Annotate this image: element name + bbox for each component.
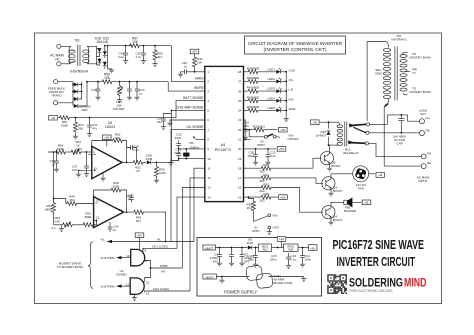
svg-text:5: 5 bbox=[207, 109, 209, 113]
resistor R38 to +5V bbox=[249, 196, 261, 198]
svg-text:BATT-SENSE: BATT-SENSE bbox=[183, 96, 204, 100]
svg-text:22: 22 bbox=[238, 128, 242, 132]
svg-text:0.01u: 0.01u bbox=[72, 168, 80, 172]
plus input ground bbox=[79, 170, 83, 173]
plus input bbox=[82, 169, 96, 171]
svg-text:O/L SENSE: O/L SENSE bbox=[186, 125, 204, 129]
terminal feedback top bbox=[54, 80, 58, 84]
+5V box above gate1 bbox=[135, 233, 144, 238]
resistor R49 2K2 wire bbox=[54, 199, 66, 204]
row pin24 WAR bbox=[244, 109, 248, 111]
gate2 bottom pin to CH2 row bbox=[142, 290, 144, 292]
svg-text:L.B: L.B bbox=[289, 88, 294, 92]
svg-text:BC547: BC547 bbox=[333, 218, 343, 222]
svg-text:+5V: +5V bbox=[137, 233, 142, 237]
+B supply box bbox=[49, 115, 58, 120]
svg-text:+B: +B bbox=[378, 173, 382, 177]
HL row wire bbox=[112, 241, 194, 243]
svg-text:DIP RET: DIP RET bbox=[113, 107, 125, 111]
svg-text:MIND: MIND bbox=[404, 275, 427, 289]
svg-text:19: 19 bbox=[238, 157, 242, 161]
contact circles bbox=[366, 123, 369, 126]
svg-text:30A-RELAY: 30A-RELAY bbox=[343, 151, 359, 155]
crystal ground bbox=[168, 162, 173, 166]
+5V output box bbox=[309, 245, 318, 251]
left rail wire bbox=[48, 152, 54, 203]
svg-text:8: 8 bbox=[207, 138, 209, 142]
svg-text:HL: HL bbox=[157, 238, 161, 242]
resistor R54 220E bbox=[55, 150, 67, 154]
svg-text:FREE ELECTRONIC CIRCUITS: FREE ELECTRONIC CIRCUITS bbox=[350, 289, 394, 293]
svg-text:28: 28 bbox=[238, 70, 242, 74]
row pin25 INV bbox=[244, 100, 248, 102]
svg-text:CAP: CAP bbox=[396, 142, 402, 146]
svg-text:R30(2K2: R30(2K2 bbox=[253, 125, 265, 129]
svg-text:TRAFO: TRAFO bbox=[51, 94, 62, 98]
svg-text:10: 10 bbox=[126, 254, 130, 258]
relay core bbox=[345, 122, 347, 147]
svg-text:+B: +B bbox=[365, 201, 369, 205]
svg-text:I/P: I/P bbox=[55, 58, 60, 62]
svg-text:CH1 LOGIC: CH1 LOGIC bbox=[152, 244, 169, 248]
primary taps bbox=[404, 93, 408, 95]
svg-text:7V: 7V bbox=[412, 71, 416, 75]
gate2 input top wire to PWM node bbox=[143, 268, 151, 281]
svg-text:T61: T61 bbox=[74, 39, 80, 43]
fuse F1 blade bbox=[247, 276, 272, 278]
svg-text:MOSFET BANK: MOSFET BANK bbox=[410, 56, 431, 60]
relay arm 1 bbox=[350, 124, 367, 125]
svg-text:R41680E: R41680E bbox=[247, 86, 260, 90]
svg-text:9: 9 bbox=[94, 151, 96, 155]
capacitor C26 op2 bbox=[109, 222, 111, 224]
UPS ground stub bbox=[268, 229, 270, 231]
pin20 +5V bbox=[244, 148, 277, 150]
resistor R53 4K7 bbox=[133, 210, 145, 214]
svg-text:100K: 100K bbox=[159, 171, 166, 175]
svg-text:CH2 LOGIC: CH2 LOGIC bbox=[153, 287, 170, 291]
crystal XTL 16MHz bbox=[184, 153, 190, 156]
resistor R35 pin16 to Q4 bbox=[244, 187, 261, 189]
svg-text:INVTRAFO: INVTRAFO bbox=[391, 38, 407, 42]
svg-text:2: 2 bbox=[207, 80, 209, 84]
svg-text:6: 6 bbox=[207, 118, 209, 122]
svg-text:100u: 100u bbox=[270, 258, 277, 262]
+B supply box bbox=[311, 120, 320, 125]
svg-text:4007: 4007 bbox=[247, 241, 254, 245]
svg-text:26: 26 bbox=[238, 89, 242, 93]
pin7 OL sense wire bbox=[171, 130, 205, 242]
wire pin13 to PWM row bbox=[183, 188, 205, 269]
secondary top wire bbox=[367, 42, 389, 122]
gate2 output wire bbox=[122, 285, 131, 287]
svg-text:10K: 10K bbox=[104, 76, 111, 80]
resistor R34 pin17 to Q3 bbox=[244, 177, 261, 179]
output wire bbox=[126, 211, 128, 213]
pin8 stub with arrow bbox=[193, 137, 204, 140]
transformer T61 primary winding bbox=[69, 46, 71, 64]
svg-text:27: 27 bbox=[238, 80, 242, 84]
bridge ground bbox=[108, 68, 112, 70]
resistor R33 pin18 to Q5 bbox=[244, 167, 261, 169]
svg-text:INVFB: INVFB bbox=[194, 86, 205, 90]
svg-text:PWM: PWM bbox=[160, 264, 168, 268]
svg-text:TO MOSFET BANK: TO MOSFET BANK bbox=[57, 265, 83, 269]
PWM row wire bbox=[144, 261, 183, 269]
svg-text:1N4148: 1N4148 bbox=[96, 40, 108, 44]
VR2 ground bbox=[59, 228, 64, 232]
svg-text:4K7: 4K7 bbox=[136, 219, 142, 223]
buzzer PB1 bbox=[344, 200, 347, 204]
svg-text:2K2: 2K2 bbox=[259, 199, 265, 203]
svg-text:20: 20 bbox=[238, 147, 242, 151]
capacitor C37 bbox=[86, 151, 88, 153]
capacitor C31 33pF bbox=[179, 158, 205, 160]
svg-text:14: 14 bbox=[207, 195, 211, 199]
svg-text:100u: 100u bbox=[247, 154, 254, 158]
resistor R63 680E bbox=[52, 202, 56, 214]
svg-text:2K2: 2K2 bbox=[69, 198, 75, 202]
CH1 LOGIC row wire bbox=[143, 248, 177, 250]
capacitor C19b bbox=[288, 253, 290, 254]
svg-text:AA: AA bbox=[161, 270, 165, 274]
svg-text:CH1 PWM: CH1 PWM bbox=[100, 256, 115, 260]
svg-text:LED3: LED3 bbox=[267, 87, 275, 91]
resistor R30 pin22 bbox=[244, 129, 254, 131]
load NE wire from relay contact 2 bbox=[369, 132, 420, 134]
CH2 PWM arrow bbox=[116, 285, 122, 288]
svg-text:33pF: 33pF bbox=[174, 151, 181, 155]
QR code bbox=[327, 274, 347, 294]
wire Q3 collector to fan bbox=[331, 173, 353, 175]
svg-text:12: 12 bbox=[146, 281, 150, 285]
svg-text:R40680E: R40680E bbox=[247, 76, 260, 80]
capacitor C20 bbox=[277, 248, 279, 253]
svg-text:INPUT: INPUT bbox=[419, 179, 428, 183]
svg-text:+B: +B bbox=[51, 116, 55, 120]
+batt rail wire bbox=[215, 247, 247, 249]
svg-text:0-6V/500mA: 0-6V/500mA bbox=[70, 70, 89, 74]
svg-text:7812: 7812 bbox=[262, 248, 268, 251]
transformer T61 secondary winding bbox=[87, 46, 89, 64]
wire REG2 out bbox=[298, 247, 309, 249]
-BATT box bbox=[203, 274, 217, 279]
IC U4 PIC16F72 body bbox=[205, 66, 244, 201]
svg-text:+5V: +5V bbox=[280, 195, 285, 199]
svg-text:SPDT: SPDT bbox=[257, 143, 265, 147]
pin15 wire junction bbox=[244, 196, 249, 198]
gate1 input bottom wire bbox=[142, 260, 145, 262]
+BATT box bbox=[203, 245, 216, 250]
AC main NE wire from trafo vertical bbox=[384, 165, 421, 167]
regulator REG2 7805 bbox=[284, 244, 299, 252]
led common cathode rail bbox=[285, 72, 287, 118]
svg-text:PIC16F72 SINE WAVE: PIC16F72 SINE WAVE bbox=[333, 237, 425, 252]
svg-text:17: 17 bbox=[238, 176, 242, 180]
svg-text:LED4: LED4 bbox=[267, 96, 275, 100]
diode D28 4148 bbox=[147, 160, 151, 164]
fan 12V DC bbox=[353, 166, 369, 182]
terminal feedback bottom bbox=[54, 101, 58, 105]
capacitor C21 bbox=[302, 248, 304, 253]
svg-text:12: 12 bbox=[207, 176, 211, 180]
svg-text:10: 10 bbox=[207, 157, 211, 161]
svg-text:7: 7 bbox=[207, 128, 209, 132]
svg-text:21: 21 bbox=[238, 138, 242, 142]
svg-text:24: 24 bbox=[238, 109, 242, 113]
primary winding bbox=[402, 53, 408, 55]
capacitor C4 bbox=[231, 248, 233, 252]
S1 UPS contact bbox=[268, 226, 271, 229]
svg-text:220E: 220E bbox=[57, 147, 64, 151]
resistor R59 bbox=[101, 80, 113, 84]
row pin27 OL bbox=[244, 80, 248, 82]
svg-text:PH: PH bbox=[427, 152, 431, 156]
terminal load PH bbox=[420, 119, 425, 124]
terminal AC NE bbox=[421, 164, 426, 169]
svg-text:11: 11 bbox=[207, 166, 210, 170]
svg-text:INVERTER CIRCUIT: INVERTER CIRCUIT bbox=[337, 254, 416, 269]
power supply box bbox=[197, 238, 322, 297]
wire Q4 collector to buzzer bbox=[331, 201, 344, 203]
resistor R56 680E bbox=[74, 224, 83, 226]
op-amp U5A triangle bbox=[92, 146, 122, 178]
wire bbox=[61, 46, 71, 64]
core bbox=[395, 47, 397, 101]
svg-text:10: 10 bbox=[94, 166, 98, 170]
+5V box above bbox=[103, 135, 112, 140]
svg-text:MOSFET BANK: MOSFET BANK bbox=[410, 90, 431, 94]
resistor R54 33K bbox=[75, 118, 77, 121]
terminal load NE bbox=[420, 131, 425, 136]
svg-text:R35: R35 bbox=[263, 183, 269, 187]
svg-text:U4: U4 bbox=[221, 143, 226, 147]
svg-text:1: 1 bbox=[207, 70, 209, 74]
capacitor C31 bbox=[129, 82, 131, 86]
svg-text:18: 18 bbox=[238, 166, 242, 170]
terminal AC PH bbox=[421, 154, 426, 159]
wire pin14 to CH1 LOGIC row bbox=[177, 197, 205, 248]
svg-text:SOLDERING: SOLDERING bbox=[349, 275, 403, 289]
relay arm 2 bbox=[354, 127, 366, 132]
preset VR3 bbox=[70, 149, 82, 155]
svg-text:14: 14 bbox=[119, 208, 123, 212]
svg-text:+5V: +5V bbox=[279, 147, 284, 151]
svg-text:-BATT: -BATT bbox=[205, 275, 214, 279]
capacitor C32 bbox=[56, 151, 58, 153]
gate2 ground bbox=[134, 294, 136, 296]
wire to pin1 bbox=[195, 71, 205, 73]
buzzer to +B box bbox=[352, 201, 361, 203]
fan to +B box bbox=[369, 173, 376, 175]
transformer T61 core bbox=[78, 45, 80, 66]
wire REG1 to REG2 bbox=[272, 247, 284, 249]
wire to R59 bbox=[87, 81, 101, 83]
svg-text:FAN: FAN bbox=[358, 186, 364, 190]
wire bridge output to filter bbox=[108, 45, 133, 47]
svg-text:BUZZER: BUZZER bbox=[344, 209, 357, 213]
wire to coil bbox=[320, 121, 337, 123]
svg-text:15: 15 bbox=[238, 195, 242, 199]
svg-text:(INVERTER CONTROL CKT): (INVERTER CONTROL CKT) bbox=[264, 47, 327, 53]
output node bbox=[126, 162, 128, 164]
svg-text:POWER SUPPLY: POWER SUPPLY bbox=[224, 290, 257, 295]
wire INVFB to pin 3 bbox=[168, 82, 204, 91]
capacitor C41 bbox=[89, 118, 91, 122]
preset VR2 bbox=[54, 224, 62, 226]
wire MAIN to pin 2 bbox=[171, 46, 204, 82]
svg-text:9: 9 bbox=[145, 259, 147, 263]
relay coil winding bbox=[337, 122, 340, 124]
svg-text:33K: 33K bbox=[78, 127, 83, 131]
svg-text:10K: 10K bbox=[197, 61, 202, 65]
feedback resistor R50 47K bbox=[92, 141, 112, 155]
opamp power gnd bbox=[102, 173, 104, 177]
svg-text:1u: 1u bbox=[184, 65, 188, 69]
svg-text:35V: 35V bbox=[213, 260, 218, 264]
svg-text:3: 3 bbox=[207, 89, 209, 93]
+5V box bbox=[190, 49, 199, 54]
svg-text:BC547: BC547 bbox=[333, 189, 343, 193]
AND gate 2 bbox=[130, 278, 144, 294]
svg-text:230V: 230V bbox=[375, 72, 382, 76]
secondary winding bbox=[383, 48, 390, 51]
svg-text:O/L: O/L bbox=[289, 78, 294, 82]
resistor R45 10K bbox=[194, 54, 196, 56]
svg-text:680E: 680E bbox=[45, 208, 52, 212]
capacitor C19 bbox=[288, 252, 290, 253]
svg-text:1u: 1u bbox=[52, 163, 56, 167]
secondary bottom wire + arrow bbox=[384, 99, 388, 166]
wire pin11 to HL row bbox=[194, 168, 205, 241]
pin6 ground bbox=[170, 120, 205, 122]
S1 INV contact bbox=[268, 214, 271, 217]
capacitor C33 bbox=[136, 82, 138, 86]
resistor R58 bbox=[154, 46, 156, 49]
fan cap 2uF bbox=[398, 115, 404, 133]
svg-text:WAR: WAR bbox=[289, 107, 297, 111]
diode D18 bbox=[328, 122, 330, 129]
svg-text:.01u: .01u bbox=[156, 120, 162, 124]
svg-text:47K: 47K bbox=[115, 136, 120, 140]
svg-text:R39680E: R39680E bbox=[247, 66, 260, 70]
diode D6 bbox=[248, 246, 252, 250]
svg-text:12: 12 bbox=[96, 216, 100, 220]
capacitor C3 4700u bbox=[219, 248, 221, 252]
title box bbox=[245, 36, 346, 54]
capacitor C30 bbox=[97, 82, 99, 86]
feedback capacitor C27 bbox=[127, 195, 132, 197]
pin21 stub bbox=[244, 138, 251, 140]
gate1 input top wire to CH1 row bbox=[142, 248, 144, 252]
feedback resistor R48 330K bbox=[94, 190, 110, 203]
svg-text:LED5: LED5 bbox=[267, 106, 275, 110]
wire bbox=[58, 82, 73, 103]
svg-text:NE: NE bbox=[426, 129, 430, 133]
capacitor C36 bbox=[143, 46, 145, 50]
resistor R52 1K bbox=[132, 160, 144, 164]
svg-text:4K7: 4K7 bbox=[157, 55, 163, 59]
svg-text:10K: 10K bbox=[132, 40, 139, 44]
svg-text:UPS: UPS bbox=[273, 226, 279, 230]
capacitor C34 bbox=[125, 46, 127, 50]
svg-text:33pF: 33pF bbox=[175, 136, 182, 140]
svg-text:1K: 1K bbox=[136, 169, 140, 173]
resistor R55 100K bbox=[156, 162, 158, 165]
fuse right wire and ground bbox=[272, 277, 304, 278]
led rail ground bbox=[284, 117, 289, 121]
svg-text:25: 25 bbox=[238, 99, 242, 103]
svg-text:ON/OFF: ON/OFF bbox=[288, 137, 299, 141]
CH2 LOGIC row wire bbox=[145, 291, 191, 293]
svg-text:4007: 4007 bbox=[81, 108, 88, 112]
svg-text:4.7u: 4.7u bbox=[136, 55, 142, 59]
MOSFET drive brace bbox=[88, 242, 93, 289]
svg-text:0.1u: 0.1u bbox=[133, 148, 139, 152]
svg-text:SPDT: SPDT bbox=[252, 229, 260, 233]
capacitor C30 33pF bbox=[179, 148, 205, 150]
svg-text:MAIN: MAIN bbox=[195, 77, 204, 81]
svg-text:2K2: 2K2 bbox=[247, 206, 253, 210]
svg-text:CH2 PWM: CH2 PWM bbox=[100, 285, 115, 289]
wire secondary to bridge bbox=[87, 46, 96, 64]
capacitor C26 bbox=[189, 71, 195, 73]
svg-text:INV: INV bbox=[289, 97, 294, 101]
svg-text:1u: 1u bbox=[113, 228, 117, 232]
capacitor C5 4700u bbox=[241, 248, 243, 252]
svg-text:100K: 100K bbox=[61, 124, 68, 128]
svg-text:+5V: +5V bbox=[280, 128, 285, 132]
S1 arm bbox=[254, 216, 268, 222]
svg-text:HL: HL bbox=[101, 238, 105, 242]
svg-text:13: 13 bbox=[146, 292, 150, 296]
feedback capacitor C34b bbox=[127, 147, 129, 149]
svg-text:INV: INV bbox=[273, 214, 278, 218]
svg-text:+5V: +5V bbox=[310, 246, 315, 250]
svg-text:13: 13 bbox=[96, 199, 100, 203]
svg-text:R43680E: R43680E bbox=[247, 105, 260, 109]
capacitor C28 pin20 rail bbox=[255, 148, 257, 150]
svg-text:+B: +B bbox=[313, 120, 317, 124]
svg-text:+5V: +5V bbox=[104, 136, 109, 140]
svg-text:1u: 1u bbox=[139, 92, 143, 96]
svg-text:10K: 10K bbox=[55, 220, 60, 224]
transistor Q3 bbox=[322, 177, 335, 190]
load PH wire from relay contact 1 bbox=[369, 115, 419, 125]
AND gate 1 bbox=[131, 249, 145, 265]
resistor R67 bbox=[129, 44, 141, 48]
svg-text:+5V: +5V bbox=[192, 50, 197, 54]
svg-text:XTL: XTL bbox=[189, 141, 195, 145]
svg-text:8: 8 bbox=[145, 248, 147, 252]
op-amp U5B triangle bbox=[94, 197, 124, 228]
svg-text:PIC16F72: PIC16F72 bbox=[215, 148, 231, 152]
resistor R36 vertical to S1 bbox=[249, 197, 254, 200]
svg-text:NE: NE bbox=[427, 161, 431, 165]
CH1 PWM arrow bbox=[116, 256, 122, 259]
svg-text:11: 11 bbox=[126, 282, 129, 286]
diode bridge D19-D22 bbox=[97, 46, 108, 69]
svg-text:0.1u: 0.1u bbox=[291, 258, 297, 262]
minus input bbox=[88, 154, 96, 156]
diodes D23-D26 bbox=[74, 83, 78, 87]
minus plus marks bbox=[95, 203, 98, 222]
svg-text:13: 13 bbox=[207, 186, 211, 190]
+5V box right of R30 bbox=[279, 127, 288, 132]
capacitor C38 pin5 filter bbox=[171, 110, 173, 112]
wire pin12 to CH2 LOGIC row bbox=[190, 178, 205, 291]
svg-text:C30: C30 bbox=[91, 88, 97, 92]
